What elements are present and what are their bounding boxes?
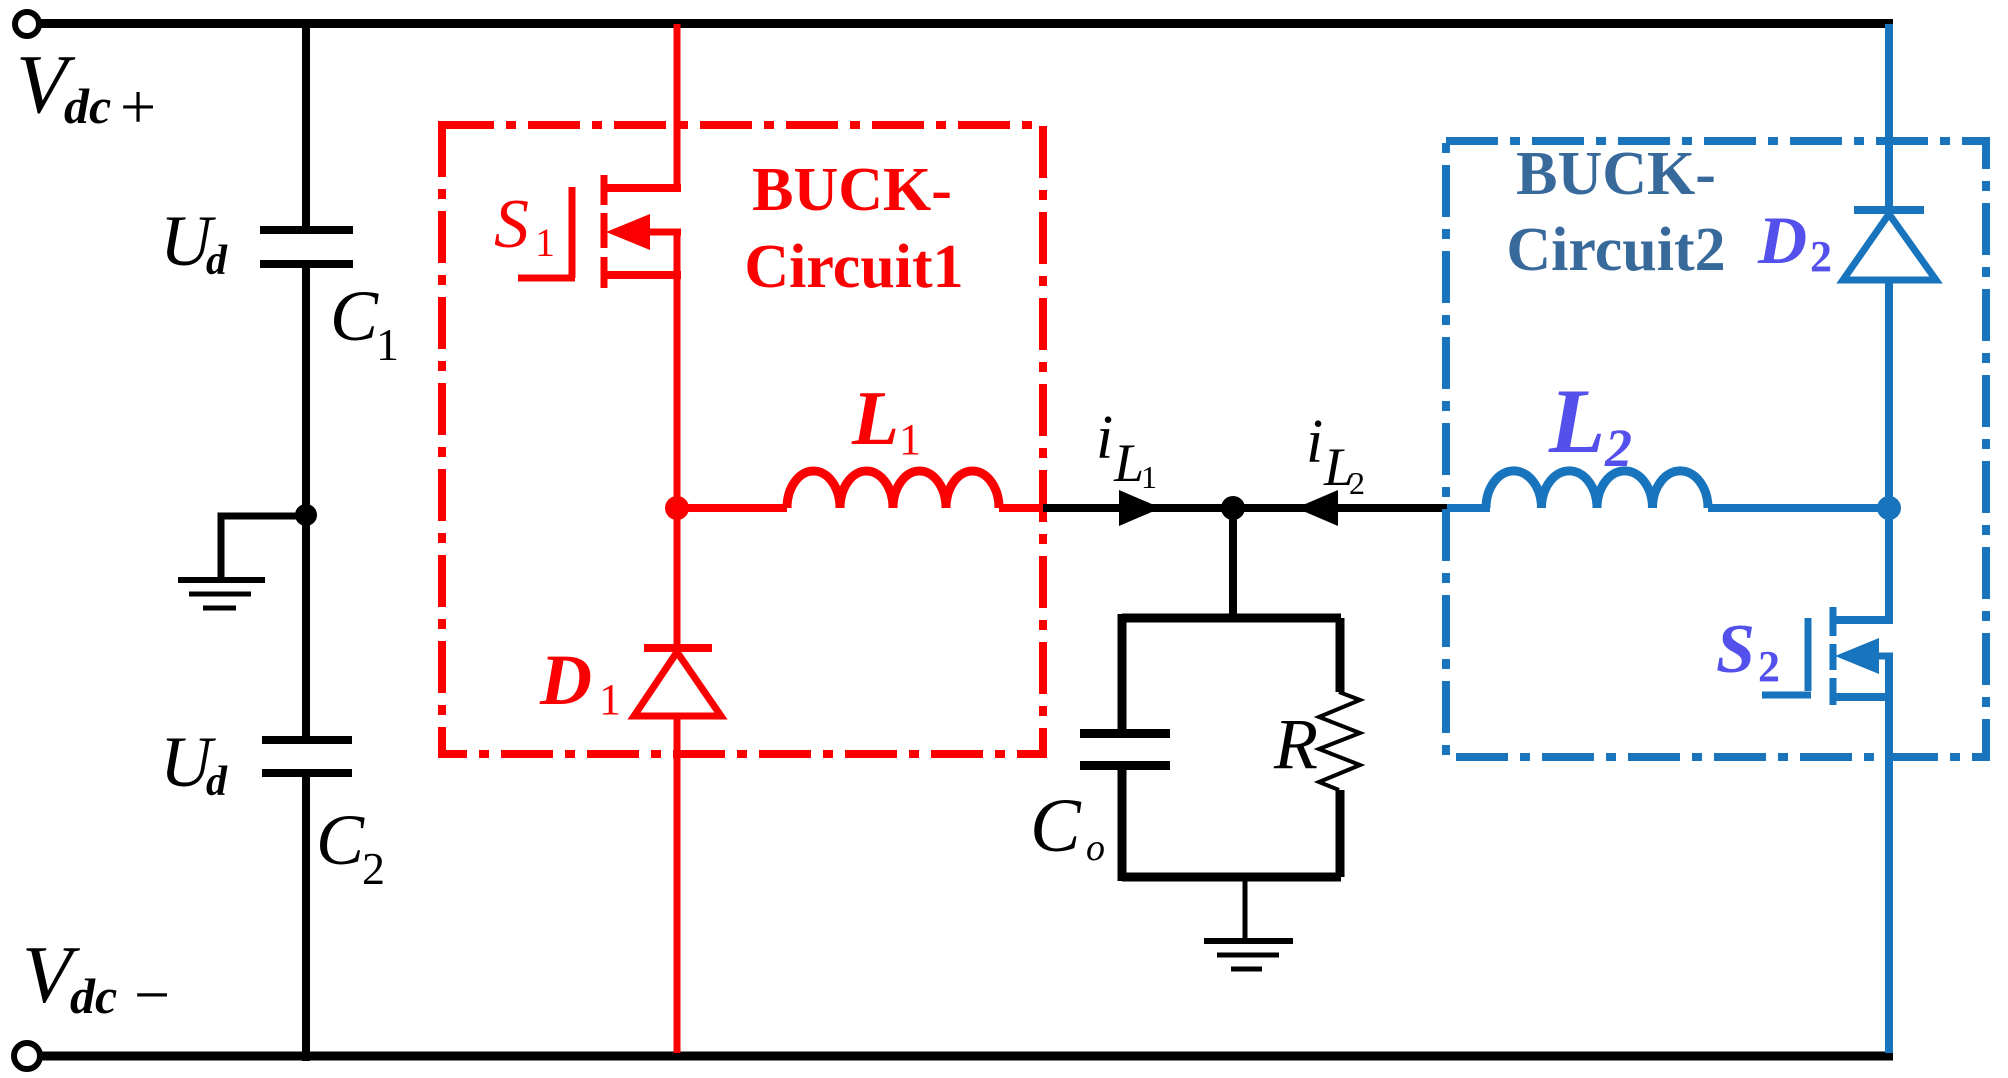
svg-text:D: D: [539, 640, 592, 720]
label Vdc+: [16, 38, 156, 142]
arrow iL1: [1119, 490, 1161, 526]
svg-text:1: 1: [899, 415, 921, 464]
anode triangle: [634, 652, 721, 716]
source lead: [674, 232, 681, 512]
dashed box BUCK-Circuit1: [442, 125, 1043, 754]
transistor S1: [518, 24, 681, 512]
channel bar dashed: [1830, 607, 1837, 705]
label Co: [1030, 784, 1105, 869]
capacitor C1: [260, 226, 353, 268]
svg-text:1: 1: [376, 319, 399, 370]
svg-text:L: L: [851, 375, 899, 461]
svg-text:Circuit2: Circuit2: [1506, 216, 1725, 284]
label Vdc-: [22, 929, 170, 1030]
source bar: [1833, 693, 1893, 701]
svg-text:1: 1: [1141, 459, 1157, 495]
drain bar: [1833, 616, 1893, 624]
cathode bar: [1854, 206, 1924, 214]
label S1: [494, 186, 555, 265]
wire down to load: [1229, 508, 1237, 622]
label C2: [316, 800, 385, 894]
label Ud upper: [160, 201, 228, 284]
drain bar: [604, 184, 681, 192]
label S2: [1716, 611, 1780, 691]
label Ud lower: [160, 722, 228, 805]
svg-text:1: 1: [535, 220, 555, 265]
svg-text:BUCK-: BUCK-: [1516, 140, 1716, 208]
svg-text:BUCK-: BUCK-: [752, 156, 952, 224]
source bar: [604, 271, 681, 279]
svg-text:2: 2: [1349, 465, 1365, 501]
node switch1 output: [665, 496, 689, 520]
node output junction: [1221, 496, 1245, 520]
svg-text:L: L: [1548, 370, 1605, 472]
diode D1: [634, 648, 721, 1053]
gate bar: [1805, 618, 1812, 691]
transistor S2: [1762, 607, 1893, 1053]
arrow iL2: [1296, 490, 1338, 526]
wire ground stub output: [1243, 877, 1248, 940]
svg-text:2: 2: [1810, 232, 1832, 281]
inductor L1: [787, 471, 999, 508]
wire ground stub: [221, 516, 306, 578]
svg-text:2: 2: [1758, 642, 1780, 691]
svg-text:Circuit1: Circuit1: [744, 233, 963, 301]
ground left: [178, 580, 265, 608]
svg-text:1: 1: [599, 675, 621, 724]
wire output node black: [1043, 504, 1447, 512]
capacitor C2: [262, 736, 352, 777]
svg-text:C: C: [316, 800, 365, 880]
svg-text:o: o: [1086, 827, 1105, 869]
svg-text:dc: dc: [64, 78, 111, 134]
wire blue top vertical: [1885, 24, 1893, 214]
terminal Vdc+: [15, 12, 39, 36]
label L2: [1548, 370, 1632, 478]
svg-text:L: L: [1113, 433, 1144, 493]
svg-text:2: 2: [1604, 418, 1632, 478]
svg-text:dc: dc: [70, 968, 117, 1024]
drain lead: [674, 24, 681, 192]
source lead: [1885, 656, 1893, 1053]
gate bar: [569, 187, 576, 278]
gate lead: [1762, 692, 1811, 699]
resistor R: [1319, 692, 1360, 790]
label C1: [330, 276, 399, 370]
body arrow: [1835, 638, 1879, 674]
svg-text:d: d: [206, 238, 228, 284]
anode lead: [1885, 280, 1893, 624]
wire left vertical: [302, 24, 310, 1061]
wire L1 to box edge: [999, 504, 1044, 512]
label D2: [1757, 202, 1832, 281]
capacitor Co: [1080, 729, 1170, 770]
diode D2: [1843, 210, 1936, 624]
anode triangle: [1843, 214, 1936, 280]
wire black to L2: [1447, 504, 1490, 512]
svg-text:R: R: [1273, 704, 1318, 784]
node switch2: [1877, 496, 1901, 520]
wire bottom rail: [40, 1052, 1893, 1061]
svg-text:+: +: [120, 71, 156, 142]
ground output: [1204, 941, 1293, 969]
wire to L1: [677, 504, 787, 512]
svg-text:D: D: [1757, 202, 1807, 278]
svg-text:d: d: [206, 759, 228, 805]
label iL2: [1306, 408, 1365, 501]
wire top rail: [40, 19, 1893, 28]
cathode bar: [644, 644, 712, 652]
svg-text:C: C: [330, 276, 379, 356]
channel bar dashed: [601, 175, 608, 288]
inductor L2: [1486, 471, 1708, 508]
wire load box: [1122, 614, 1341, 881]
svg-text:2: 2: [362, 843, 385, 894]
svg-text:i: i: [1096, 404, 1113, 472]
label D1: [539, 640, 621, 724]
terminal Vdc-: [14, 1043, 40, 1069]
dashed box BUCK-Circuit2: [1446, 141, 1986, 757]
label iL1: [1096, 404, 1157, 495]
anode lead: [674, 716, 681, 1053]
wire L2 to node: [1708, 504, 1889, 512]
svg-text:−: −: [134, 959, 170, 1030]
svg-text:S: S: [1716, 611, 1755, 688]
wire D1 cathode lead: [674, 508, 681, 652]
node midpoint junction: [295, 504, 317, 526]
label L1: [851, 375, 921, 464]
svg-text:i: i: [1306, 408, 1323, 476]
svg-text:C: C: [1030, 784, 1082, 868]
gate lead: [518, 275, 575, 282]
body arrow: [606, 214, 650, 250]
svg-text:S: S: [494, 186, 529, 263]
